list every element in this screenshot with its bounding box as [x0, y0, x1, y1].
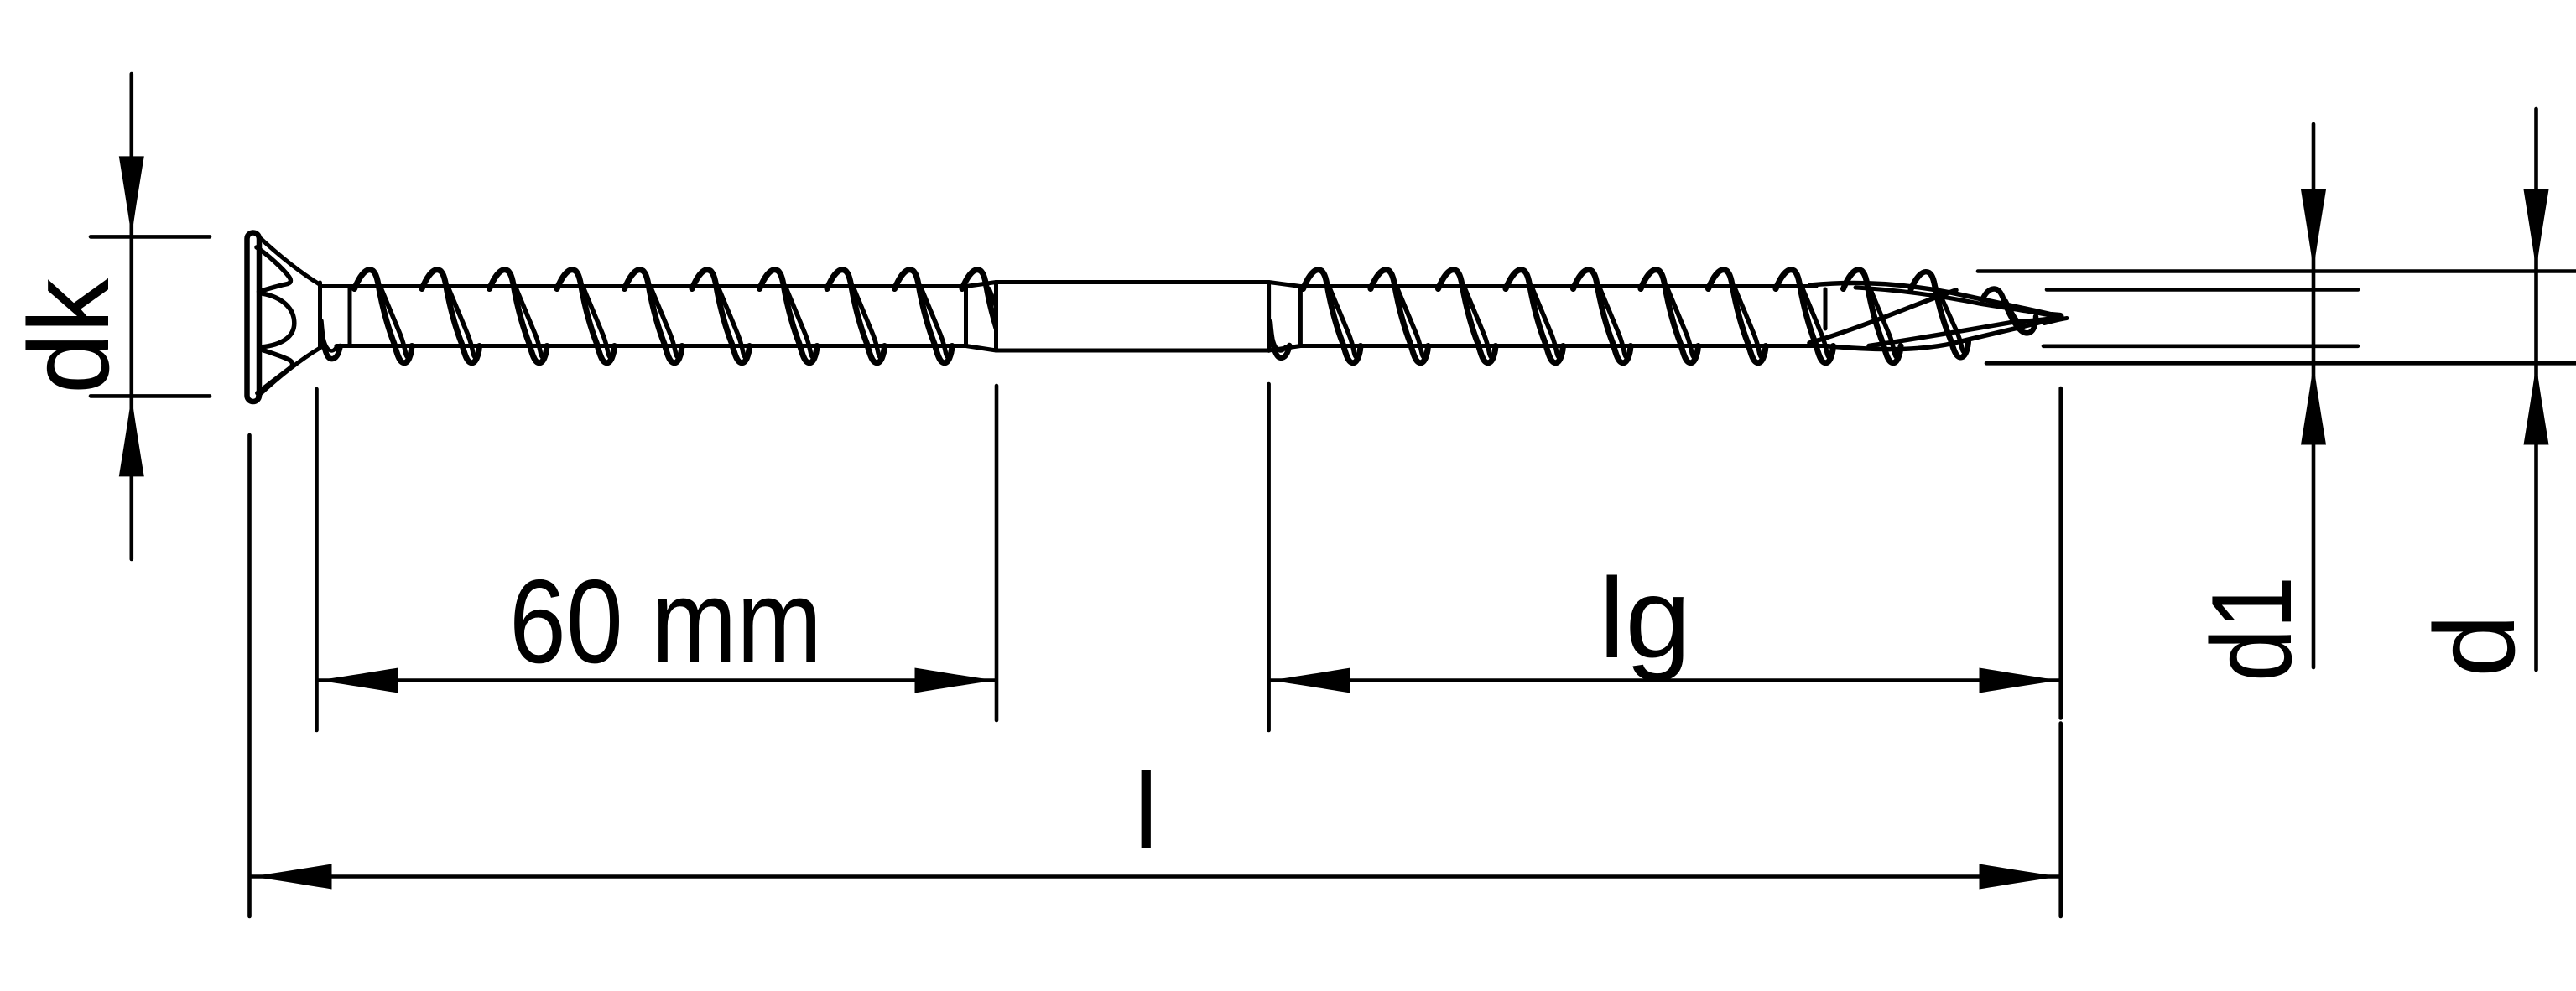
svg-text:d1: d1	[2188, 576, 2315, 682]
d outer bottom reference line	[1986, 361, 2576, 366]
dk bottom tick	[91, 394, 210, 398]
thread section 1 crests	[355, 270, 1020, 363]
thread start vertical line B	[348, 288, 352, 346]
thread section 2 crest 8	[1776, 270, 1834, 363]
d1 dimension vertical line	[2312, 124, 2316, 667]
thread start hook under neck	[321, 321, 341, 359]
thread section 2 crest 5	[1574, 270, 1631, 363]
d down arrow	[2524, 189, 2549, 270]
thread section 1 crest 5	[625, 270, 683, 363]
thread section 1 crest 7	[760, 270, 818, 363]
d1 inner top reference line	[2047, 288, 2358, 292]
dk top tick	[91, 235, 210, 239]
thread section 2 crest 7	[1709, 270, 1767, 363]
arrowheads	[119, 156, 2549, 889]
head cone top edge	[258, 236, 320, 285]
thread section 1 crest 2	[422, 270, 480, 363]
thread section 1 crest 10	[962, 270, 1020, 363]
svg-text:dk: dk	[5, 278, 133, 394]
d dimension vertical line	[2534, 109, 2538, 670]
cone base vertical line A	[318, 283, 322, 348]
thread section 2 crest 2	[1371, 270, 1429, 363]
svg-text:d: d	[2411, 614, 2538, 677]
shank end vertical line E	[1267, 283, 1271, 351]
tip small crest	[1982, 288, 2036, 333]
thread section 2 hook inner line	[1272, 334, 1286, 350]
l dimension line	[251, 874, 2059, 879]
extension line head rim (l)	[247, 435, 252, 916]
core top line section 2	[1300, 284, 1816, 288]
thread section 1 crest 9	[895, 270, 953, 363]
60 mm dimension line	[317, 678, 996, 682]
svg-text:60 mm: 60 mm	[509, 555, 822, 688]
lg right arrow	[1980, 668, 2060, 693]
transition bottom C-D	[966, 346, 997, 351]
shank bottom line	[997, 349, 1269, 353]
thread section 2 crest 6	[1641, 270, 1699, 363]
thread end vertical line C	[964, 287, 968, 346]
d up arrow	[2524, 365, 2549, 445]
thread section 1 crest 1	[355, 270, 413, 363]
thread section 1 crest 3	[490, 270, 548, 363]
thread section 2 crest 1	[1304, 270, 1361, 363]
extension line thread start (60mm)	[315, 389, 319, 730]
tip small crest inner	[2006, 301, 2024, 328]
d1 down arrow	[2301, 189, 2326, 270]
svg-text:l: l	[1134, 752, 1158, 872]
tip flute diagonal 1	[1809, 290, 1956, 343]
tip crest (slightly squashed)	[1911, 272, 1969, 357]
dk up arrow	[119, 396, 144, 476]
svg-text:lg: lg	[1599, 554, 1691, 682]
shank top line	[997, 280, 1269, 284]
thread section 2 crest 9	[1844, 270, 1902, 363]
transition bottom E-F	[1269, 346, 1301, 351]
extension line shank end (lg)	[1267, 384, 1271, 730]
thread restart vertical line F	[1298, 287, 1303, 345]
head recess lobe bottom	[258, 350, 293, 393]
thread section 1 crest 8	[827, 270, 885, 363]
extension line shank start (60mm)	[995, 386, 999, 720]
head recess lobe middle	[259, 293, 294, 348]
thread section 2 crest 4	[1506, 270, 1564, 363]
l left arrow	[252, 864, 332, 890]
lg left arrow	[1270, 668, 1350, 693]
transition top C-D	[966, 283, 997, 287]
dk down arrow	[119, 156, 144, 236]
thread section 1 crest 4	[557, 270, 615, 363]
tip point	[2052, 312, 2060, 320]
thread section 1 crest 6	[692, 270, 750, 363]
head cone bottom edge	[258, 348, 320, 397]
head recess lobe top	[257, 247, 290, 292]
thread section 2 crests	[1304, 270, 1902, 363]
core top line section 1	[320, 284, 966, 288]
tip lower tail	[2044, 319, 2067, 324]
dk dimension vertical line	[130, 74, 134, 559]
d1 up arrow	[2301, 365, 2326, 445]
lg dimension line	[1270, 678, 2059, 682]
tip flute diagonal 2	[1869, 319, 2052, 346]
60mm right arrow	[915, 668, 996, 693]
core bottom line section 2	[1300, 344, 1825, 348]
thread section 2 crest 3	[1439, 270, 1496, 363]
transition top E-F	[1269, 283, 1301, 287]
l right arrow	[1980, 864, 2060, 890]
thread start hook inner line	[323, 334, 337, 350]
60mm left arrow	[318, 668, 398, 693]
tip top second outline	[1855, 288, 2053, 316]
extension line screw tip (lg + l)	[2058, 388, 2063, 719]
d1 inner bottom reference line	[2043, 344, 2358, 348]
thread section 2 start hook	[1270, 322, 1289, 358]
tip bottom outline	[1825, 319, 2054, 350]
screw head rim	[247, 233, 260, 402]
shank start vertical line D	[994, 283, 998, 351]
tip base vertical line	[1824, 289, 1828, 329]
core bottom line section 1	[336, 344, 966, 348]
d outer top reference line	[1978, 269, 2576, 273]
tip top outline	[1810, 283, 2058, 316]
